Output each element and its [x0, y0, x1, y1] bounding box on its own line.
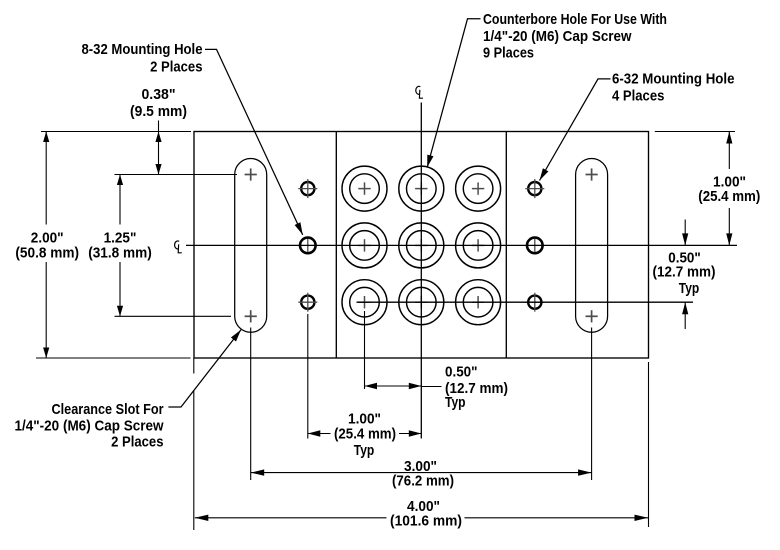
svg-text:(31.8 mm): (31.8 mm) [88, 245, 152, 261]
svg-text:1/4"-20 (M6) Cap Screw: 1/4"-20 (M6) Cap Screw [483, 29, 632, 45]
svg-text:(76.2 mm): (76.2 mm) [392, 474, 454, 490]
svg-text:4 Places: 4 Places [612, 88, 664, 104]
svg-text:(50.8 mm): (50.8 mm) [15, 245, 79, 261]
svg-text:9 Places: 9 Places [483, 46, 534, 62]
svg-text:(12.7 mm): (12.7 mm) [653, 264, 716, 280]
svg-text:2 Places: 2 Places [111, 435, 163, 451]
svg-text:(25.4 mm): (25.4 mm) [698, 189, 760, 205]
svg-text:1.00": 1.00" [348, 412, 381, 428]
svg-text:1.25": 1.25" [104, 230, 137, 246]
svg-text:(25.4 mm): (25.4 mm) [334, 427, 396, 443]
svg-text:Typ: Typ [354, 443, 375, 459]
svg-text:0.38": 0.38" [142, 87, 176, 103]
svg-text:Counterbore Hole For Use With: Counterbore Hole For Use With [483, 12, 667, 28]
svg-text:Typ: Typ [445, 395, 466, 411]
svg-text:2 Places: 2 Places [150, 60, 202, 76]
svg-text:6-32 Mounting Hole: 6-32 Mounting Hole [612, 72, 735, 88]
svg-text:8-32 Mounting Hole: 8-32 Mounting Hole [82, 42, 203, 58]
svg-text:Typ: Typ [679, 281, 700, 297]
svg-text:(9.5 mm): (9.5 mm) [130, 104, 187, 120]
svg-text:1/4"-20 (M6) Cap Screw: 1/4"-20 (M6) Cap Screw [15, 419, 165, 435]
svg-text:2.00": 2.00" [31, 230, 64, 246]
svg-text:0.50": 0.50" [445, 365, 478, 381]
svg-text:Clearance Slot For: Clearance Slot For [52, 402, 164, 418]
svg-text:(101.6 mm): (101.6 mm) [390, 514, 462, 530]
